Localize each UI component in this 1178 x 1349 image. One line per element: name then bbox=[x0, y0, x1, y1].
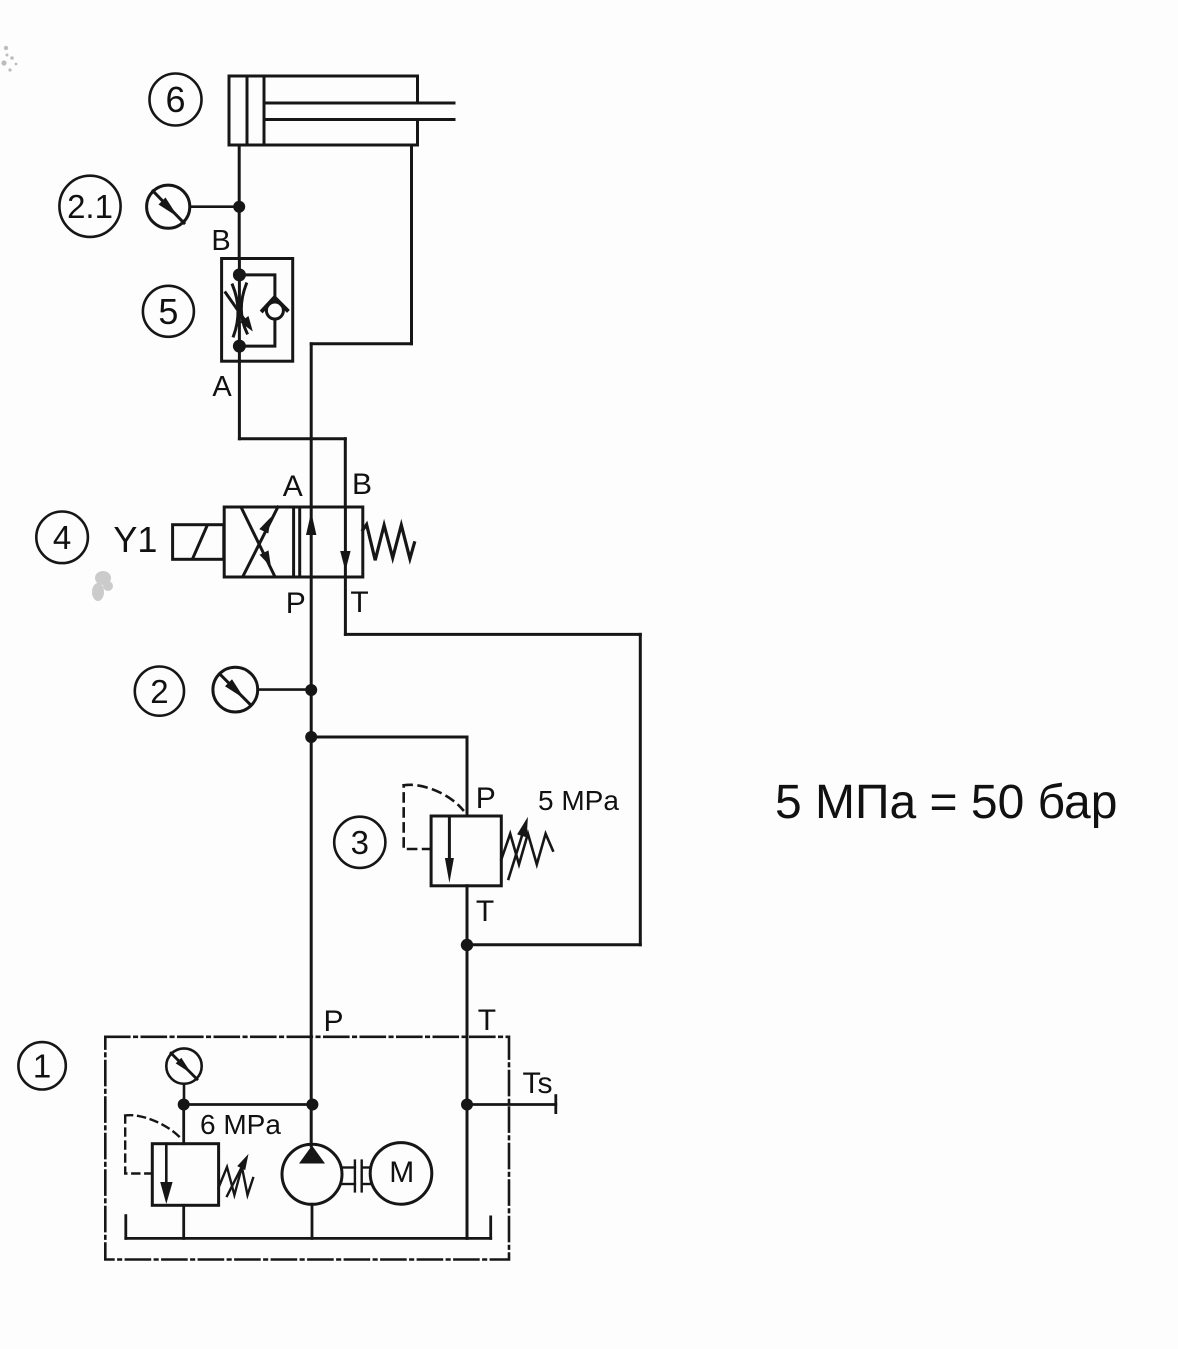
crossed arrows left square bbox=[243, 507, 278, 576]
svg-text:T: T bbox=[478, 1004, 496, 1037]
wire P line valve to pump bbox=[310, 577, 313, 1146]
wire down to valve port B bbox=[344, 439, 347, 507]
coupling pump-motor bbox=[342, 1161, 370, 1192]
wire T right vertical bbox=[639, 634, 642, 944]
wire gauge junction to P junction bbox=[184, 1103, 313, 1106]
check valve branch of 5 bbox=[239, 275, 275, 302]
adjustment arrow relief 3 bbox=[509, 836, 522, 879]
svg-text:A: A bbox=[212, 371, 232, 403]
svg-text:M: M bbox=[389, 1156, 414, 1189]
label circle 5 bbox=[143, 286, 194, 337]
junction dot relief branch bbox=[305, 731, 317, 743]
wire T horizontal right bbox=[345, 633, 640, 636]
directional valve 4 bbox=[224, 507, 363, 577]
gauge 2 bbox=[213, 667, 311, 712]
gauge in power unit bbox=[166, 1048, 201, 1104]
wire cylinder rod port down bbox=[410, 145, 413, 344]
wire T valve down bbox=[344, 577, 347, 634]
label circle 4 bbox=[36, 512, 88, 564]
svg-text:A: A bbox=[283, 470, 303, 503]
svg-text:Ts: Ts bbox=[523, 1067, 553, 1100]
cylinder 6 bbox=[229, 76, 454, 145]
svg-text:5 МПа = 50 бар: 5 МПа = 50 бар bbox=[775, 776, 1117, 829]
tank line bbox=[126, 1216, 491, 1239]
svg-text:6: 6 bbox=[165, 79, 185, 120]
scanner smudge top-left bbox=[1, 46, 17, 72]
power unit 1 boundary bbox=[105, 1037, 509, 1260]
P to A arrow bbox=[310, 507, 313, 577]
spring of relief 3 bbox=[501, 834, 553, 865]
svg-text:T: T bbox=[350, 586, 368, 619]
wire rod-side horizontal bbox=[311, 342, 411, 345]
svg-text:Y1: Y1 bbox=[113, 519, 157, 560]
label circle 6 bbox=[150, 74, 202, 126]
wire branch to relief P bbox=[311, 737, 467, 816]
label circle 1 bbox=[18, 1042, 65, 1089]
relief valve 3 bbox=[404, 785, 553, 886]
B to T arrow bbox=[344, 507, 347, 577]
label circle 2.1 bbox=[59, 176, 120, 237]
flow control valve 5 bbox=[222, 259, 293, 362]
solenoid Y1 bbox=[173, 525, 224, 560]
wire T junction to Ts bbox=[467, 1103, 556, 1106]
junction dot gauge 2.1 bbox=[233, 201, 245, 213]
junction dot T net bbox=[461, 939, 473, 951]
gauge 2.1 bbox=[147, 185, 240, 228]
motor M bbox=[370, 1143, 432, 1205]
pilot dashed line 3 bbox=[404, 785, 431, 849]
junction dot gauge 2 bbox=[305, 684, 317, 696]
svg-text:5: 5 bbox=[158, 291, 178, 332]
svg-text:P: P bbox=[323, 1005, 343, 1038]
junction dots power unit bbox=[178, 1099, 190, 1111]
svg-text:4: 4 bbox=[53, 519, 71, 556]
unit relief T to tank bbox=[182, 1205, 185, 1238]
label circle 3 bbox=[334, 817, 385, 868]
pilot dashed line unit relief bbox=[125, 1116, 152, 1174]
wire T bottom horizontal bbox=[467, 943, 640, 946]
adjustment arrow unit relief bbox=[227, 1168, 241, 1196]
wire relief3 T down to unit bbox=[466, 886, 469, 1239]
svg-text:2: 2 bbox=[150, 673, 168, 710]
svg-text:T: T bbox=[476, 895, 494, 928]
svg-text:P: P bbox=[286, 587, 306, 620]
smudge near Y1 bbox=[92, 571, 113, 601]
spring of valve 4 bbox=[363, 525, 415, 561]
svg-text:P: P bbox=[476, 782, 496, 815]
spring unit relief bbox=[219, 1167, 254, 1195]
svg-text:5 MPa: 5 MPa bbox=[538, 785, 619, 816]
svg-text:6 MPa: 6 MPa bbox=[200, 1109, 281, 1140]
svg-text:1: 1 bbox=[33, 1048, 51, 1085]
svg-text:B: B bbox=[352, 468, 372, 501]
pump bbox=[282, 1144, 342, 1238]
wire comp5 A down bbox=[238, 361, 241, 439]
svg-text:B: B bbox=[211, 225, 230, 257]
Ts terminal tick bbox=[554, 1096, 557, 1113]
relief valve in power unit (6 MPa) bbox=[125, 1105, 253, 1239]
wire cylinder cap port B down bbox=[238, 145, 241, 259]
svg-text:2.1: 2.1 bbox=[67, 188, 113, 225]
label circle 2 bbox=[135, 667, 184, 716]
wire horizontal A to valve B bbox=[239, 437, 345, 440]
wire rod-side to valve port A bbox=[310, 344, 313, 507]
svg-text:3: 3 bbox=[351, 824, 369, 861]
